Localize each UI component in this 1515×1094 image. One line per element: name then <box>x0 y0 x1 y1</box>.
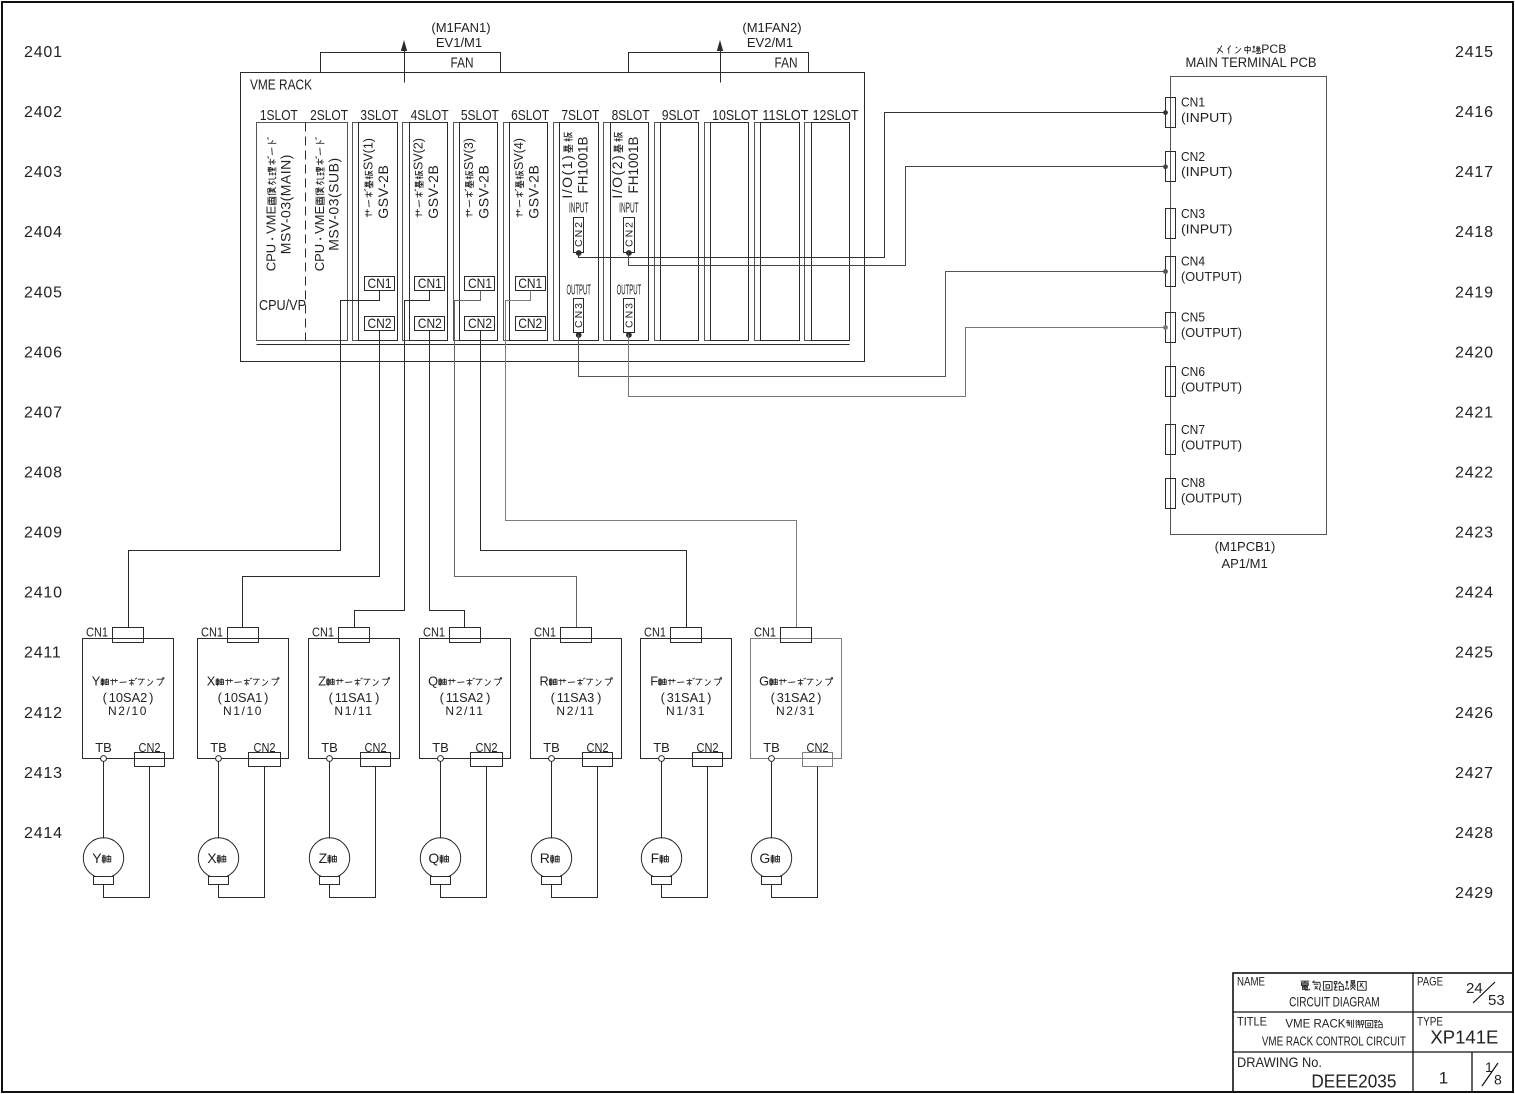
svg-text:1: 1 <box>1439 1069 1448 1088</box>
wire F TB to motor <box>661 762 663 839</box>
svg-text:2424: 2424 <box>1455 585 1494 602</box>
svg-text:2417: 2417 <box>1455 164 1494 181</box>
svg-text:VME RACK: VME RACK <box>1285 1019 1345 1031</box>
slot5 connector CN2 <box>465 317 495 331</box>
VME rack enclosure <box>241 73 865 362</box>
svg-text:CPU/VP: CPU/VP <box>259 297 306 314</box>
svg-text:NAME: NAME <box>1237 975 1265 989</box>
svg-text:2425: 2425 <box>1455 645 1494 662</box>
svg-text:7SLOT: 7SLOT <box>561 107 599 124</box>
wire Q TB to motor <box>440 762 442 839</box>
fan unit EV2/M1 enclosure <box>629 53 809 73</box>
wire G CN2 to motor <box>772 767 818 898</box>
svg-text:2422: 2422 <box>1455 465 1494 482</box>
svg-text:2416: 2416 <box>1455 104 1494 121</box>
svg-text:2412: 2412 <box>24 705 63 722</box>
svg-text:2405: 2405 <box>24 284 63 301</box>
svg-text:2429: 2429 <box>1455 885 1494 902</box>
svg-text:2421: 2421 <box>1455 404 1494 421</box>
main terminal PCB outline <box>1171 77 1327 535</box>
slot position labels 1SLOT-12SLOT <box>260 107 859 124</box>
terminal PCB connector CN5 <box>1166 313 1176 343</box>
svg-text:(M1PCB1): (M1PCB1) <box>1215 539 1276 554</box>
svg-text:INPUT: INPUT <box>619 200 639 217</box>
wire slot8 CN2 to terminal CN2 <box>629 167 1166 266</box>
svg-text:1SLOT: 1SLOT <box>260 107 298 124</box>
wire slot8 CN3 to terminal CN5 <box>629 328 1166 397</box>
motor G terminal foot <box>762 877 782 885</box>
slot3 board text servo-kiban SV(1) GSV-2B <box>361 138 375 217</box>
svg-text:2404: 2404 <box>24 224 63 241</box>
svg-text:8SLOT: 8SLOT <box>612 107 650 124</box>
svg-text:SV(2): SV(2) <box>412 138 426 170</box>
slot5 servo board GSV-2B outline <box>460 123 498 341</box>
svg-text:TB: TB <box>321 740 338 755</box>
svg-text:TB: TB <box>95 740 112 755</box>
svg-text:TB: TB <box>763 740 780 755</box>
servo amp X connector CN1 <box>228 628 259 643</box>
svg-text:CN1: CN1 <box>468 275 492 291</box>
svg-text:2428: 2428 <box>1455 825 1494 842</box>
svg-text:31SA1: 31SA1 <box>667 690 705 705</box>
svg-text:N2/10: N2/10 <box>108 704 148 718</box>
svg-text:2409: 2409 <box>24 525 63 542</box>
slot1 board text CPU-VME MSV-03(MAIN) <box>264 138 279 272</box>
svg-text:31SA2: 31SA2 <box>777 690 815 705</box>
svg-text:XP141E: XP141E <box>1430 1028 1498 1048</box>
svg-text:2411: 2411 <box>24 645 62 662</box>
servo amp Y connector CN1 <box>113 628 144 643</box>
wire slot4 CN1 to Z-axis amp CN1 <box>355 291 430 628</box>
svg-text:EV2/M1: EV2/M1 <box>747 35 793 50</box>
svg-text:2426: 2426 <box>1455 705 1494 722</box>
servo amp F-axis (31SA1) enclosure <box>641 639 732 759</box>
wire R CN2 to motor <box>552 767 598 898</box>
svg-text:2403: 2403 <box>24 164 63 181</box>
svg-text:(M1FAN1): (M1FAN1) <box>431 20 490 35</box>
motor F terminal foot <box>652 877 672 885</box>
servo amp Y-axis (10SA2) enclosure <box>83 639 174 759</box>
svg-text:5SLOT: 5SLOT <box>461 107 499 124</box>
svg-text:2402: 2402 <box>24 104 63 121</box>
svg-text:2420: 2420 <box>1455 344 1494 361</box>
svg-text:(: ( <box>551 690 556 705</box>
terminal PCB connector CN7 <box>1166 425 1176 455</box>
svg-text:(: ( <box>440 690 445 705</box>
svg-text:): ) <box>375 690 379 705</box>
svg-text:EV1/M1: EV1/M1 <box>436 35 482 50</box>
svg-text:(INPUT): (INPUT) <box>1181 110 1233 125</box>
svg-text:CN3: CN3 <box>1181 206 1205 221</box>
fan EV1/M1 airflow arrow <box>404 49 406 83</box>
svg-text:SV(1): SV(1) <box>361 138 375 170</box>
svg-text:GSV-2B: GSV-2B <box>375 165 391 219</box>
svg-text:(M1FAN2): (M1FAN2) <box>742 20 801 35</box>
slot12 empty slot outline <box>812 123 850 341</box>
svg-text:2408: 2408 <box>24 465 63 482</box>
svg-text:9SLOT: 9SLOT <box>662 107 700 124</box>
wire slot3 CN2 to X-axis amp CN1 <box>243 331 380 628</box>
svg-text:F: F <box>650 674 658 689</box>
motor Q terminal foot <box>431 877 451 885</box>
slot8 board text I/O(2) kiban FH1001B <box>609 132 625 198</box>
svg-text:Q: Q <box>428 674 438 689</box>
wire X CN2 to motor <box>219 767 265 898</box>
servo amp R-axis (11SA3) enclosure <box>531 639 622 759</box>
svg-text:CN1: CN1 <box>754 624 776 639</box>
svg-text:MAIN TERMINAL PCB: MAIN TERMINAL PCB <box>1186 55 1317 70</box>
servo amp Z connector CN1 <box>339 628 370 643</box>
slot10 empty slot outline <box>711 123 749 341</box>
svg-text:2407: 2407 <box>24 404 63 421</box>
svg-text:2427: 2427 <box>1455 765 1494 782</box>
wire Z CN2 to motor <box>330 767 376 898</box>
servo amp G-axis (31SA2) enclosure <box>751 639 842 759</box>
slot6 board text servo-kiban SV(4) GSV-2B <box>512 138 526 217</box>
svg-text:(: ( <box>771 690 776 705</box>
slot1/slot2 dashed divider <box>305 123 307 341</box>
svg-text:6SLOT: 6SLOT <box>511 107 549 124</box>
fan EV2/M1 airflow arrow <box>720 49 722 83</box>
svg-text:TB: TB <box>210 740 227 755</box>
wire R TB to motor <box>551 762 553 839</box>
svg-text:(OUTPUT): (OUTPUT) <box>1181 325 1242 340</box>
slot8 I/O board FH1001B outline <box>611 123 649 341</box>
servo amp X-axis (10SA1) enclosure <box>198 639 289 759</box>
svg-text:CN3: CN3 <box>573 301 585 328</box>
svg-text:GSV-2B: GSV-2B <box>425 165 441 219</box>
svg-text:Z: Z <box>318 674 326 689</box>
svg-text:CN1: CN1 <box>418 275 442 291</box>
svg-text:2414: 2414 <box>24 825 63 842</box>
servo amp F connector CN1 <box>671 628 702 643</box>
slot4 board text servo-kiban SV(2) GSV-2B <box>412 138 426 217</box>
svg-text:CN2: CN2 <box>623 220 635 247</box>
svg-text:(: ( <box>661 690 666 705</box>
svg-text:Z: Z <box>319 850 328 866</box>
svg-text:DRAWING No.: DRAWING No. <box>1237 1054 1322 1070</box>
svg-text:SV(3): SV(3) <box>462 138 476 170</box>
svg-text:TB: TB <box>543 740 560 755</box>
svg-text:CN2: CN2 <box>418 315 442 331</box>
slot7 CN3 junction dot <box>576 332 582 338</box>
slot7 board text I/O(1) kiban FH1001B <box>559 132 575 198</box>
svg-text:2406: 2406 <box>24 344 63 361</box>
svg-text:3SLOT: 3SLOT <box>360 107 398 124</box>
terminal PCB connector CN8 <box>1166 479 1176 509</box>
svg-text:TITLE: TITLE <box>1237 1015 1267 1029</box>
svg-text:(OUTPUT): (OUTPUT) <box>1181 269 1242 284</box>
svg-text:CN1: CN1 <box>312 624 334 639</box>
wire slot5 CN2 to F-axis amp CN1 <box>481 331 687 628</box>
wire F CN2 to motor <box>662 767 708 898</box>
wire Z TB to motor <box>329 762 331 839</box>
terminal PCB connector CN2 <box>1166 152 1176 182</box>
terminal PCB connector CN6 <box>1166 367 1176 397</box>
svg-text:10SA1: 10SA1 <box>224 690 262 705</box>
motor X terminal foot <box>209 877 229 885</box>
slot4 connector CN2 <box>415 317 445 331</box>
svg-text:Q: Q <box>428 850 439 866</box>
svg-text:CN8: CN8 <box>1181 475 1205 490</box>
slot2 board text CPU-VME MSV-03(SUB) <box>312 138 327 272</box>
svg-text:TB: TB <box>432 740 449 755</box>
svg-text:I/O(2): I/O(2) <box>609 154 625 199</box>
wire slot7 CN2 to terminal CN1 <box>579 113 1166 258</box>
slot7 I/O board FH1001B outline <box>560 123 599 341</box>
svg-text:GSV-2B: GSV-2B <box>475 165 491 219</box>
slot backplane connector rails <box>353 123 812 341</box>
svg-text:X: X <box>207 850 217 866</box>
svg-text:4SLOT: 4SLOT <box>411 107 449 124</box>
svg-text:2410: 2410 <box>24 585 63 602</box>
slot11 empty slot outline <box>761 123 800 341</box>
wire G TB to motor <box>771 762 773 839</box>
wire X TB to motor <box>218 762 220 839</box>
svg-text:10SA2: 10SA2 <box>109 690 147 705</box>
svg-text:2419: 2419 <box>1455 284 1494 301</box>
title block grid <box>1233 973 1513 1092</box>
svg-text:): ) <box>597 690 601 705</box>
svg-text:VME RACK CONTROL CIRCUIT: VME RACK CONTROL CIRCUIT <box>1262 1034 1406 1049</box>
slot4 servo board GSV-2B outline <box>410 123 448 341</box>
svg-text:GSV-2B: GSV-2B <box>526 165 542 219</box>
right margin row numbers 2415-2429 <box>1455 44 1494 902</box>
svg-text:): ) <box>264 690 268 705</box>
wire slot3 CN1 to Y-axis amp CN1 <box>129 291 380 628</box>
slot8 connector CN3 (output) <box>624 299 635 333</box>
svg-text:10SLOT: 10SLOT <box>712 107 758 124</box>
rack card-cage bottom rail <box>257 344 850 346</box>
svg-text:CN1: CN1 <box>201 624 223 639</box>
svg-text:INPUT: INPUT <box>569 200 589 217</box>
wire slot6 CN1 to G-axis amp CN1 <box>506 291 797 628</box>
svg-text:TB: TB <box>653 740 670 755</box>
svg-text:N2/31: N2/31 <box>776 704 816 718</box>
svg-text:CN1: CN1 <box>534 624 556 639</box>
svg-text:I/O(1): I/O(1) <box>559 154 575 199</box>
svg-text:FAN: FAN <box>451 55 474 72</box>
svg-text:F: F <box>651 850 660 866</box>
svg-text:(INPUT): (INPUT) <box>1181 221 1233 236</box>
svg-text:FH1001B: FH1001B <box>626 136 641 193</box>
svg-text:MSV-03(MAIN): MSV-03(MAIN) <box>277 154 293 254</box>
motor R-axis <box>531 838 571 878</box>
motor X-axis <box>198 838 238 878</box>
wire Y CN2 to motor <box>104 767 150 898</box>
svg-text:CN1: CN1 <box>518 275 542 291</box>
svg-text:11SA3: 11SA3 <box>557 690 594 705</box>
motor Z terminal foot <box>320 877 340 885</box>
svg-text:CN1: CN1 <box>644 624 666 639</box>
terminal PCB connector CN1 <box>1166 98 1176 128</box>
svg-text:N2/11: N2/11 <box>445 704 484 718</box>
svg-text:CN1: CN1 <box>1181 95 1205 110</box>
svg-text:CN1: CN1 <box>86 624 108 639</box>
svg-text:CN6: CN6 <box>1181 364 1205 379</box>
svg-text:2401: 2401 <box>24 44 63 61</box>
svg-text:(: ( <box>103 690 108 705</box>
svg-text:R: R <box>540 674 549 689</box>
svg-text:Y: Y <box>92 850 102 866</box>
svg-text:8: 8 <box>1494 1072 1502 1088</box>
svg-text:PCB: PCB <box>1261 42 1286 56</box>
svg-text:N1/11: N1/11 <box>334 704 373 718</box>
motor R terminal foot <box>542 877 562 885</box>
slot9 empty slot outline <box>661 123 699 341</box>
svg-text:(OUTPUT): (OUTPUT) <box>1181 379 1242 394</box>
servo amp Q connector CN1 <box>450 628 481 643</box>
slot3 connector CN2 <box>365 317 395 331</box>
svg-text:SV(4): SV(4) <box>512 138 526 170</box>
svg-text:2SLOT: 2SLOT <box>310 107 348 124</box>
svg-text:2413: 2413 <box>24 765 63 782</box>
slot4 connector CN1 <box>415 277 445 291</box>
motor Y-axis <box>83 838 123 878</box>
svg-text:FH1001B: FH1001B <box>576 136 591 193</box>
junction dot at terminal CN1 <box>1163 110 1168 115</box>
motor F-axis <box>641 838 681 878</box>
slot3 servo board GSV-2B outline <box>359 123 398 341</box>
svg-text:11SLOT: 11SLOT <box>762 107 808 124</box>
motor G-axis <box>751 838 791 878</box>
svg-text:FAN: FAN <box>775 55 798 72</box>
svg-text:CIRCUIT DIAGRAM: CIRCUIT DIAGRAM <box>1289 993 1380 1009</box>
junction dot at terminal CN5 <box>1163 325 1168 330</box>
svg-text:2415: 2415 <box>1455 44 1494 61</box>
svg-text:R: R <box>540 850 550 866</box>
svg-text:11SA1: 11SA1 <box>335 690 372 705</box>
slot3 connector CN1 <box>365 277 395 291</box>
left margin row numbers 2401-2414 <box>24 44 63 842</box>
terminal PCB connector CN3 <box>1166 209 1176 239</box>
wire slot5 CN1 to R-axis amp CN1 <box>455 291 577 628</box>
svg-text:2418: 2418 <box>1455 224 1494 241</box>
servo amp G connector CN1 <box>781 628 812 643</box>
svg-text:OUTPUT: OUTPUT <box>617 282 642 299</box>
svg-text:): ) <box>707 690 711 705</box>
svg-text:VME RACK: VME RACK <box>250 77 312 94</box>
svg-text:): ) <box>149 690 153 705</box>
svg-text:2423: 2423 <box>1455 525 1494 542</box>
slot5 connector CN1 <box>465 277 495 291</box>
svg-text:G: G <box>759 850 770 866</box>
slot8 connector CN2 (input) <box>624 218 635 253</box>
svg-text:(: ( <box>329 690 334 705</box>
svg-text:CN3: CN3 <box>623 301 635 328</box>
svg-text:(INPUT): (INPUT) <box>1181 164 1233 179</box>
junction dot at terminal CN2 <box>1163 164 1168 169</box>
svg-text:(OUTPUT): (OUTPUT) <box>1181 437 1242 452</box>
svg-text:): ) <box>486 690 490 705</box>
motor Y terminal foot <box>94 877 114 885</box>
svg-text:): ) <box>817 690 821 705</box>
svg-text:CN7: CN7 <box>1181 422 1205 437</box>
svg-text:PAGE: PAGE <box>1417 975 1443 989</box>
svg-text:CN1: CN1 <box>423 624 445 639</box>
wire slot7 CN3 to terminal CN4 <box>579 272 1166 377</box>
terminal PCB connector CN4 <box>1166 257 1176 287</box>
junction dot at terminal CN4 <box>1163 269 1168 274</box>
svg-text:(: ( <box>218 690 223 705</box>
svg-text:Y: Y <box>92 674 101 689</box>
motor Z-axis <box>309 838 349 878</box>
slot1/2 CPU board MSV-03 outline <box>257 123 348 341</box>
svg-text:TYPE: TYPE <box>1417 1015 1443 1029</box>
svg-text:CN4: CN4 <box>1181 254 1205 269</box>
svg-text:CN2: CN2 <box>573 220 585 247</box>
main terminal PCB title JP <box>1217 46 1222 54</box>
slot8 CN3 junction dot <box>626 332 632 338</box>
slot7 CN2 junction dot <box>576 250 582 256</box>
svg-text:CN2: CN2 <box>468 315 492 331</box>
wire slot4 CN2 to Q-axis amp CN1 <box>430 331 465 628</box>
svg-text:12SLOT: 12SLOT <box>813 107 859 124</box>
svg-text:53: 53 <box>1488 992 1505 1009</box>
svg-text:CN5: CN5 <box>1181 310 1205 325</box>
wire Q CN2 to motor <box>441 767 487 898</box>
svg-text:N1/31: N1/31 <box>666 704 706 718</box>
svg-text:(OUTPUT): (OUTPUT) <box>1181 490 1242 505</box>
slot6 servo board GSV-2B outline <box>510 123 548 341</box>
svg-text:MSV-03(SUB): MSV-03(SUB) <box>325 157 341 250</box>
servo amp Z-axis (11SA1) enclosure <box>309 639 400 759</box>
slot6 connector CN2 <box>516 317 546 331</box>
slot6 connector CN1 <box>516 277 546 291</box>
svg-text:G: G <box>759 674 769 689</box>
servo amp Q-axis (11SA2) enclosure <box>420 639 511 759</box>
svg-text:CN2: CN2 <box>518 315 542 331</box>
svg-text:OUTPUT: OUTPUT <box>566 282 591 299</box>
svg-text:X: X <box>207 674 216 689</box>
slot5 board text servo-kiban SV(3) GSV-2B <box>462 138 476 217</box>
servo amp R connector CN1 <box>561 628 592 643</box>
svg-text:CN2: CN2 <box>1181 149 1205 164</box>
slot7 connector CN2 (input) <box>574 218 584 253</box>
fan unit EV1/M1 enclosure <box>321 53 501 73</box>
svg-text:CN2: CN2 <box>368 315 392 331</box>
svg-text:N1/10: N1/10 <box>223 704 263 718</box>
svg-text:N2/11: N2/11 <box>556 704 595 718</box>
svg-text:DEEE2035: DEEE2035 <box>1311 1072 1396 1092</box>
svg-text:AP1/M1: AP1/M1 <box>1221 556 1267 571</box>
motor Q-axis <box>420 838 460 878</box>
svg-text:CN1: CN1 <box>368 275 392 291</box>
slot8 CN2 junction dot <box>626 250 632 256</box>
wire Y TB to motor <box>103 762 105 839</box>
svg-text:11SA2: 11SA2 <box>446 690 483 705</box>
slot7 connector CN3 (output) <box>574 299 584 333</box>
svg-text:24: 24 <box>1466 980 1483 997</box>
